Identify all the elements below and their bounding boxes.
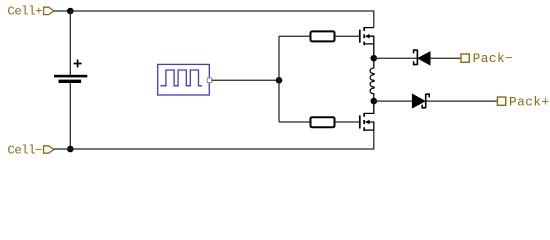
wire bottom rail (70, 130, 374, 149)
svg-text:Cell+: Cell+ (7, 4, 42, 18)
wire pulse source to gate node (212, 79, 279, 81)
wire switch bottom to diode D2 (374, 100, 413, 102)
pulse source V2 output pin square (207, 78, 212, 83)
transistor Q1 channel bar (363, 27, 365, 45)
transistor Q2 drain stub (364, 101, 374, 113)
diode D1 cathode bar (414, 50, 418, 65)
battery V1 plus sign (74, 60, 82, 68)
diode D2 triangle (412, 94, 424, 108)
wire R1 to Q1 gate (335, 35, 360, 37)
transistor Q2 gate bar (359, 115, 361, 128)
diode D2 cathode bar (422, 94, 429, 108)
pulse source V2 waveform (160, 70, 202, 86)
wire top rail (70, 11, 374, 28)
node junction switch top (371, 55, 378, 62)
wire Cell- port to bottom rail (54, 148, 71, 150)
transistor Q1 bulk wire (369, 36, 373, 44)
transistor Q1 drain stub (364, 27, 374, 29)
transistor Q1 gate bar (359, 30, 361, 43)
svg-text:Pack−: Pack− (473, 51, 514, 66)
diode D1 triangle (418, 52, 430, 65)
node junction top-left (67, 8, 74, 15)
node junction switch bottom (371, 98, 378, 105)
wire D2 to Pack+ port (425, 100, 497, 102)
battery V1 bottom plate (59, 80, 82, 83)
transistor Q1 bulk arrow (365, 34, 370, 39)
wire D1 to Pack- port (430, 57, 461, 59)
port symbol Cell+ (44, 7, 54, 14)
pulse source V2 body (158, 64, 210, 95)
svg-text:Cell−: Cell− (7, 143, 42, 157)
wire to resistor R1 (279, 35, 311, 37)
transistor Q2 channel bar (363, 113, 365, 131)
wire gate branch vertical (278, 36, 280, 122)
node junction gate split (276, 77, 283, 84)
port symbol Pack- (461, 54, 469, 62)
resistor R1 (311, 31, 335, 41)
port symbol Pack+ (497, 97, 505, 105)
wire battery bottom (69, 83, 71, 149)
svg-text:Pack+: Pack+ (509, 95, 550, 110)
wire to resistor R2 (279, 121, 311, 123)
transistor Q2 source stub (364, 129, 374, 131)
wire battery top (69, 11, 71, 75)
transistor Q1 source stub (364, 44, 374, 58)
wire R2 to Q2 gate (335, 121, 360, 123)
wire switch top to diode D1 (374, 57, 417, 59)
wire Cell+ port to top rail (54, 10, 71, 12)
transistor Q2 bulk arrow (365, 120, 370, 125)
port symbol Cell- (44, 146, 54, 153)
transistor Q2 bulk wire (369, 122, 373, 130)
inductor L1 (370, 58, 374, 101)
resistor R2 (311, 117, 335, 127)
battery V1 top plate (54, 75, 87, 78)
node junction bottom-left (67, 146, 74, 153)
